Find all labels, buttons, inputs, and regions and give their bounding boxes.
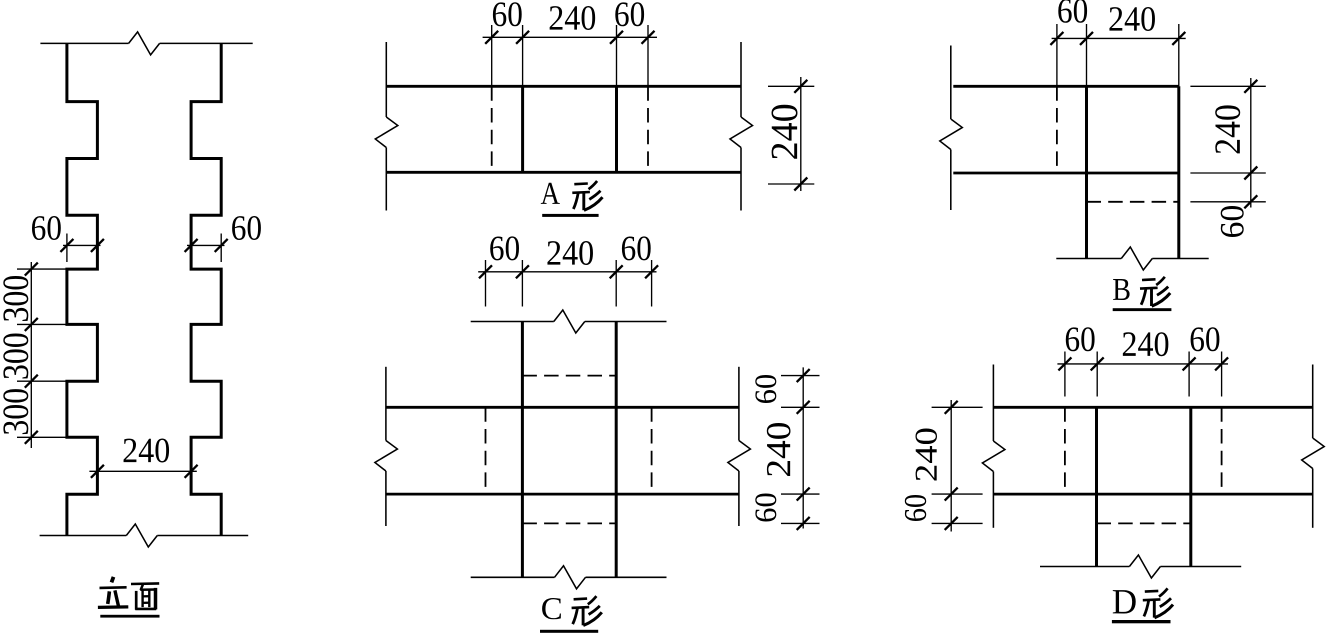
elevation 240 dimension (89, 438, 197, 477)
D left column line (1095, 407, 1098, 566)
elevation right toothed column edge (191, 43, 221, 535)
A title A形 with underline (541, 181, 603, 217)
elevation top wall line with break (40, 32, 252, 55)
C title C形 with underline (540, 596, 602, 633)
D top dimension 60-240-60 (1057, 327, 1228, 396)
A right cut line with break (730, 42, 753, 211)
elevation left toothed column edge (67, 43, 98, 535)
D wall top line (993, 406, 1312, 409)
D title D形 with underline (1112, 588, 1173, 623)
D left cut line with break (982, 365, 1005, 528)
B vertical dashed toothing line (1056, 86, 1058, 173)
C right column line (615, 322, 618, 578)
D horizontal dashed line (1097, 522, 1191, 524)
D left 240-60 dimension chain (905, 400, 983, 532)
D right column line (1189, 407, 1192, 566)
A left dashed toothing line (491, 86, 493, 172)
C top horizontal dashed line (522, 375, 616, 377)
C bottom cut line with break (471, 566, 667, 589)
A right column line (615, 86, 618, 172)
C right vertical dashed line (651, 407, 653, 494)
B title B形 with underline (1113, 277, 1172, 311)
A left column line (521, 86, 524, 172)
B left cut line with break (940, 46, 963, 211)
D right cut line with break (1302, 365, 1325, 528)
B right 240-60 dimension chain (1190, 78, 1265, 237)
C right cut line with break (728, 367, 751, 526)
elevation 300 dimension chain (3, 262, 66, 448)
C left column line (521, 322, 524, 578)
C top cut line with break (471, 310, 667, 333)
C wall top line (386, 406, 739, 409)
B horizontal dashed toothing line (1087, 201, 1179, 203)
elevation title 立面 with underline (98, 577, 160, 618)
C bottom horizontal dashed line (522, 522, 616, 524)
B wall top line (953, 85, 1179, 88)
D bottom cut line with break (1040, 555, 1241, 578)
elevation left 60 dimension (32, 216, 104, 262)
D wall bottom line (993, 493, 1312, 496)
D right vertical dashed line (1221, 407, 1223, 494)
A right dashed toothing line (647, 86, 649, 172)
B bottom cut line with break (1056, 247, 1208, 270)
C top dimension 60-240-60 (478, 236, 658, 306)
C left vertical dashed line (485, 407, 487, 494)
B right column line (1177, 86, 1180, 258)
A top dimension 60-240-60 (483, 2, 657, 86)
C right 60-240-60 dimension chain (755, 367, 819, 530)
A right 240 dimension (768, 77, 814, 191)
elevation right 60 dimension (185, 216, 261, 262)
B top dimension 60-240 (1050, 0, 1185, 86)
C wall bottom line (386, 493, 739, 496)
A left cut line with break (375, 42, 398, 211)
elevation bottom wall line with break (40, 524, 249, 547)
B wall bottom line (953, 172, 1179, 175)
B left column line (1085, 86, 1088, 258)
D left vertical dashed line (1064, 407, 1066, 494)
A wall bottom line (386, 171, 741, 174)
C left cut line with break (375, 367, 398, 526)
A wall top line (386, 85, 741, 88)
